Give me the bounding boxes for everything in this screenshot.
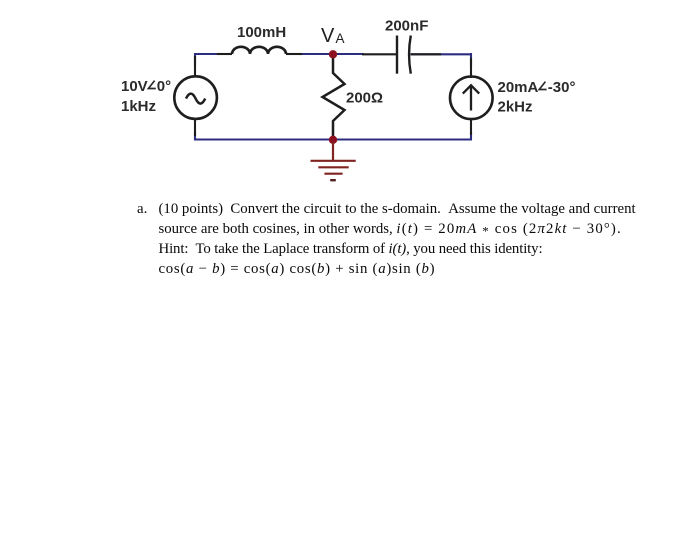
svg-text:20mA: 20mA: [498, 79, 539, 96]
svg-text:10V: 10V: [121, 78, 148, 95]
svg-text:100mH: 100mH: [237, 24, 286, 41]
svg-text:2kHz: 2kHz: [498, 99, 533, 116]
svg-text:1kHz: 1kHz: [121, 98, 156, 115]
svg-text:0°: 0°: [157, 78, 171, 95]
svg-text:cos(a − b) = cos(a) cos(b) + s: cos(a − b) = cos(a) cos(b) + sin (a)sin …: [159, 261, 436, 277]
svg-text:source are both cosines, in ot: source are both cosines, in other words,…: [159, 221, 622, 238]
svg-text:a.: a.: [137, 201, 147, 217]
svg-text:Hint: To take the Laplace tra: Hint: To take the Laplace transform of i…: [159, 241, 543, 257]
svg-text:200Ω: 200Ω: [346, 90, 383, 107]
svg-text:V: V: [321, 25, 335, 47]
svg-text:200nF: 200nF: [385, 18, 428, 35]
svg-text:-30°: -30°: [548, 79, 576, 96]
svg-text:A: A: [336, 31, 345, 46]
svg-text:(10 points) Convert the circu: (10 points) Convert the circuit to the s…: [159, 201, 637, 217]
